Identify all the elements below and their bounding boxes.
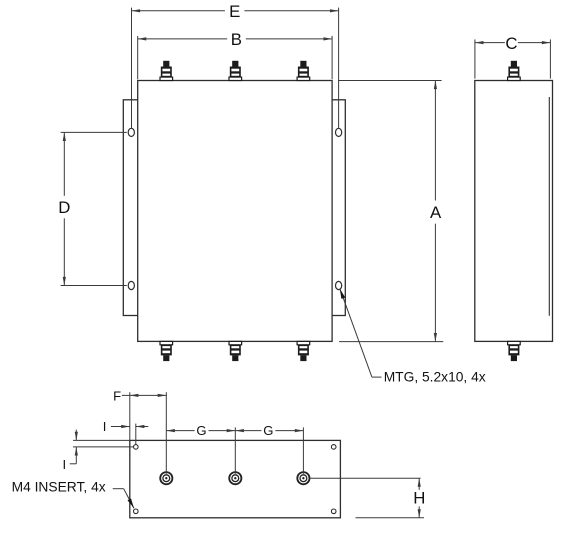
- leader line to mounting slot: [340, 289, 382, 378]
- dimension I (edge to insert, horizontal): [103, 419, 149, 445]
- M4 insert hole bottom-right: [331, 509, 336, 514]
- mounting slot top-right: [336, 128, 342, 136]
- dimension G G (connector spacing): [166, 423, 303, 474]
- dimension F (edge to first connector): [113, 388, 166, 474]
- dimension C (body depth): [475, 34, 551, 79]
- svg-text:I: I: [103, 419, 107, 434]
- note M4 INSERT, 4x: [12, 480, 106, 495]
- connector J2 top: [229, 61, 242, 81]
- connector J5 bottom: [229, 341, 242, 361]
- dimension B (body width): [138, 30, 332, 79]
- M4 insert hole top-right: [331, 445, 336, 450]
- svg-text:G: G: [196, 423, 206, 438]
- bottom view connector 2: [229, 472, 241, 484]
- side view cover edge line: [548, 97, 550, 316]
- svg-text:M4 INSERT, 4x: M4 INSERT, 4x: [12, 480, 106, 495]
- connector J6 bottom: [297, 341, 310, 361]
- M4 insert hole top-left: [134, 445, 139, 450]
- bottom view connector 3: [297, 472, 309, 484]
- bottom view enclosure outline: [130, 440, 341, 517]
- svg-text:I: I: [62, 457, 66, 472]
- connector J4 bottom: [160, 341, 173, 361]
- svg-text:B: B: [231, 30, 242, 49]
- dimension E (overall width over mounting holes): [132, 2, 339, 128]
- front view left mounting flange: [123, 100, 138, 316]
- side view enclosure body: [475, 81, 553, 342]
- mounting slot bottom-right: [336, 281, 342, 289]
- side view connector top: [508, 61, 521, 81]
- svg-text:A: A: [430, 203, 442, 222]
- svg-text:C: C: [505, 34, 517, 53]
- mounting slot bottom-left: [128, 281, 134, 289]
- dimension D (mounting hole vertical spacing): [58, 132, 127, 285]
- mounting slot top-left: [128, 128, 134, 136]
- bottom view connector 1: [160, 472, 172, 484]
- note MTG, 5.2x10, 4x: [384, 370, 486, 385]
- dimension H (connector row to bottom edge): [310, 478, 426, 518]
- front view right mounting flange: [331, 100, 345, 316]
- svg-text:H: H: [413, 489, 425, 508]
- svg-text:E: E: [229, 2, 240, 21]
- svg-text:D: D: [58, 198, 70, 217]
- connector J3 top: [297, 61, 310, 81]
- leader line to M4 insert: [113, 489, 134, 509]
- front view enclosure body: [138, 81, 332, 342]
- svg-text:G: G: [263, 423, 273, 438]
- svg-text:F: F: [113, 388, 121, 403]
- side view connector bottom: [508, 341, 521, 361]
- connector J1 top: [160, 61, 173, 81]
- dimension I (edge to insert, vertical): [62, 430, 133, 473]
- M4 insert hole bottom-left: [134, 509, 139, 514]
- svg-text:MTG, 5.2x10, 4x: MTG, 5.2x10, 4x: [384, 370, 486, 385]
- dimension A (body height): [338, 81, 443, 342]
